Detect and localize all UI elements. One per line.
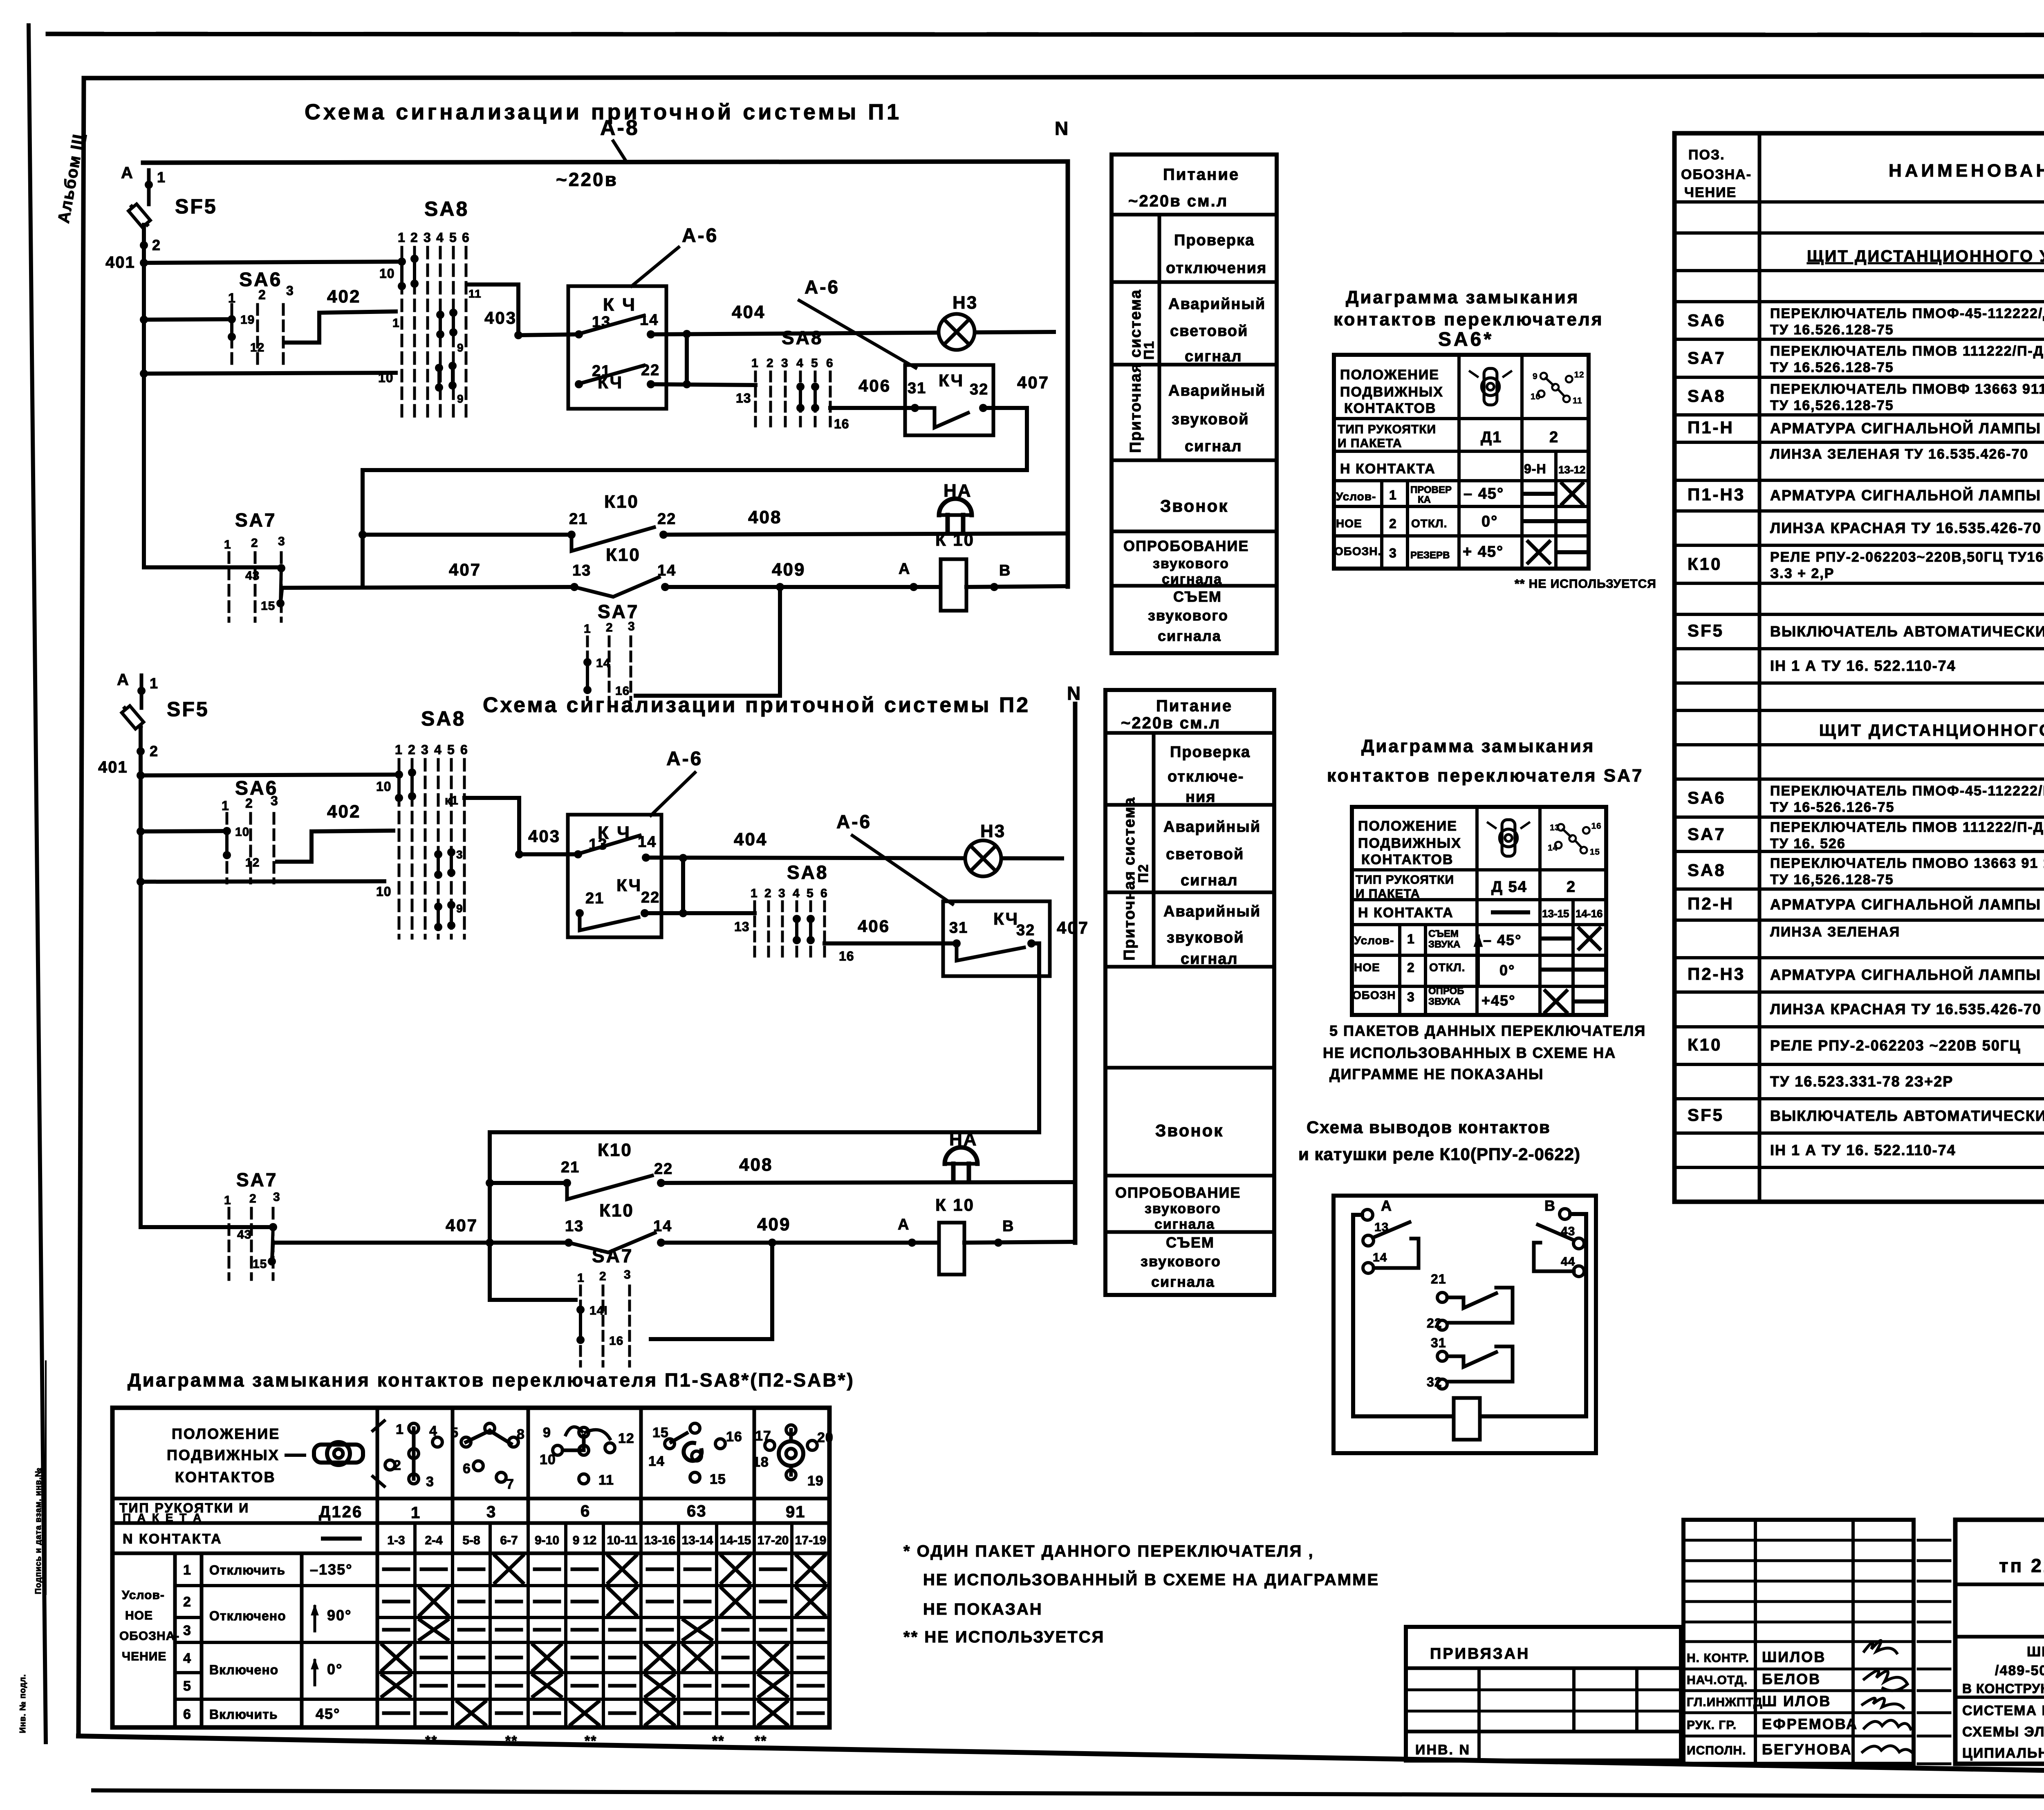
pictogram package 1 bbox=[385, 1422, 442, 1490]
page outer border top bbox=[48, 34, 2044, 35]
svg-text:НОЕ: НОЕ bbox=[1336, 517, 1362, 530]
svg-text:4: 4 bbox=[183, 1651, 191, 1666]
svg-text:9-10: 9-10 bbox=[535, 1534, 559, 1547]
svg-text:Н КОНТАКТА: Н КОНТАКТА bbox=[1358, 905, 1454, 921]
svg-text:ПРОВЕР: ПРОВЕР bbox=[1410, 484, 1452, 495]
svg-text:31: 31 bbox=[949, 919, 968, 936]
svg-text:** НЕ ИСПОЛЬЗУЕТСЯ: ** НЕ ИСПОЛЬЗУЕТСЯ bbox=[903, 1628, 1105, 1646]
svg-text:Аварийный: Аварийный bbox=[1168, 382, 1266, 399]
svg-text:3: 3 bbox=[1407, 990, 1415, 1004]
wire row3 bbox=[144, 373, 396, 374]
svg-text:13-15: 13-15 bbox=[1542, 907, 1569, 920]
svg-text:SA7: SA7 bbox=[598, 601, 639, 622]
svg-text:1: 1 bbox=[751, 356, 759, 370]
svg-text:~220в: ~220в bbox=[556, 169, 618, 190]
svg-text:2: 2 bbox=[408, 742, 416, 757]
svg-text:2: 2 bbox=[258, 287, 266, 302]
svg-text:13-14: 13-14 bbox=[682, 1534, 713, 1547]
svg-text:14: 14 bbox=[1548, 843, 1558, 853]
wire jog from SA8 to KЧ bbox=[468, 284, 518, 335]
svg-text:1: 1 bbox=[183, 1562, 191, 1578]
svg-text:КОНТАКТОВ: КОНТАКТОВ bbox=[1361, 852, 1453, 867]
svg-text:Проверка: Проверка bbox=[1170, 744, 1251, 761]
svg-text:SF5: SF5 bbox=[1688, 621, 1724, 640]
svg-text:**: ** bbox=[755, 1733, 767, 1749]
svg-text:90°: 90° bbox=[327, 1607, 352, 1624]
svg-text:ГЛ.ИНЖПТД: ГЛ.ИНЖПТД bbox=[1687, 1696, 1763, 1709]
svg-text:СИСТЕМА ПРИТОЧНАЯ П1(П2).: СИСТЕМА ПРИТОЧНАЯ П1(П2). bbox=[1962, 1703, 2044, 1718]
wire 22 out P2 bbox=[645, 911, 755, 915]
svg-text:9: 9 bbox=[1533, 372, 1537, 381]
svg-text:19: 19 bbox=[807, 1473, 824, 1489]
svg-text:3: 3 bbox=[456, 848, 463, 861]
section verticals in header rows bbox=[451, 1408, 455, 1523]
SA6 diagram table frame bbox=[1334, 355, 1589, 569]
svg-text:17: 17 bbox=[755, 1428, 771, 1444]
SA7 matrix cells bbox=[1542, 936, 1570, 941]
svg-text:6: 6 bbox=[183, 1707, 191, 1722]
svg-text:32: 32 bbox=[1016, 922, 1035, 939]
svg-text:ШКОЛА НА 13КЛАССОВ: ШКОЛА НА 13КЛАССОВ bbox=[2027, 1644, 2044, 1660]
svg-text:ПОЛОЖЕНИЕ: ПОЛОЖЕНИЕ bbox=[1358, 818, 1457, 834]
svg-text:НАИМЕНОВАНИЕ: НАИМЕНОВАНИЕ bbox=[1889, 161, 2044, 181]
wire 407 P2 from SA7 to K10 13 bbox=[273, 1241, 569, 1245]
wire 409 bbox=[665, 585, 941, 589]
svg-text:КОНТАКТОВ: КОНТАКТОВ bbox=[175, 1469, 276, 1485]
svg-text:1: 1 bbox=[411, 1504, 421, 1522]
wire 408 bbox=[663, 533, 1068, 535]
svg-text:ОТКЛ.: ОТКЛ. bbox=[1411, 517, 1447, 530]
svg-text:тп 222-1-467. 86: тп 222-1-467. 86 bbox=[1999, 1555, 2044, 1576]
svg-text:Отключить: Отключить bbox=[209, 1563, 285, 1577]
svg-text:отключения: отключения bbox=[1166, 260, 1267, 277]
svg-text:14-15: 14-15 bbox=[720, 1534, 751, 1547]
svg-text:2: 2 bbox=[183, 1594, 191, 1610]
title block middle gap column bbox=[1954, 1520, 1957, 1764]
svg-text:SA6: SA6 bbox=[1688, 311, 1726, 330]
wire row3 P2 bbox=[141, 881, 384, 882]
wire 402 (stepped) bbox=[286, 311, 396, 343]
svg-text:SF5: SF5 bbox=[175, 195, 217, 218]
svg-text:Услов-: Услов- bbox=[122, 1588, 165, 1602]
relay contact block КЧ P1 (13-14 / 21-22) bbox=[568, 286, 666, 409]
svg-text:ОБОЗНА-: ОБОЗНА- bbox=[1681, 167, 1752, 182]
contact A (13-14) bbox=[1362, 1210, 1373, 1220]
svg-text:5: 5 bbox=[450, 1425, 459, 1440]
svg-text:П1-Н3: П1-Н3 bbox=[1688, 485, 1745, 504]
wire 404 to lamp bbox=[651, 332, 1054, 334]
svg-text:1: 1 bbox=[395, 742, 403, 757]
svg-text:12: 12 bbox=[1574, 370, 1585, 380]
contact column verticals bbox=[413, 1523, 417, 1727]
svg-text:ОПРОБ: ОПРОБ bbox=[1428, 986, 1464, 997]
svg-text:3: 3 bbox=[424, 230, 431, 245]
signatures squiggles bbox=[1864, 1640, 1897, 1653]
svg-text:Услов-: Услов- bbox=[1336, 490, 1376, 503]
svg-text:А-6: А-6 bbox=[836, 811, 872, 832]
svg-text:ПОЛОЖЕНИЕ: ПОЛОЖЕНИЕ bbox=[1340, 367, 1439, 383]
svg-text:406: 406 bbox=[858, 916, 890, 936]
svg-text:3: 3 bbox=[421, 742, 429, 757]
svg-text:2: 2 bbox=[764, 887, 772, 900]
svg-text:ЦИПИАЛЬНЫЕ СИГНАЛИЗАЦИИ: ЦИПИАЛЬНЫЕ СИГНАЛИЗАЦИИ bbox=[1962, 1745, 2044, 1761]
signal table П2 rotated column divider bbox=[1152, 733, 1156, 967]
SA7 handle pictogram bbox=[1488, 820, 1529, 856]
svg-text:В: В bbox=[1544, 1197, 1556, 1214]
svg-text:10-11: 10-11 bbox=[607, 1534, 637, 1547]
relay coil K10 rect bbox=[1454, 1398, 1480, 1440]
svg-text:SA7: SA7 bbox=[235, 509, 276, 531]
svg-text:ОБОЗНА-: ОБОЗНА- bbox=[119, 1629, 179, 1643]
svg-text:А: А bbox=[1381, 1197, 1392, 1214]
svg-text:3: 3 bbox=[1389, 546, 1397, 560]
svg-text:А: А bbox=[899, 560, 910, 578]
svg-text:22: 22 bbox=[657, 511, 676, 528]
svg-text:**: ** bbox=[585, 1733, 597, 1749]
svg-text:SF5: SF5 bbox=[167, 698, 209, 721]
svg-text:ЕФРЕМОВА: ЕФРЕМОВА bbox=[1762, 1716, 1858, 1732]
svg-text:404: 404 bbox=[732, 302, 765, 322]
svg-text:СЪЕМ: СЪЕМ bbox=[1166, 1234, 1215, 1251]
svg-text:403: 403 bbox=[484, 308, 517, 327]
svg-text:А: А bbox=[898, 1216, 910, 1233]
svg-text:ния: ния bbox=[1186, 789, 1216, 806]
svg-text:21: 21 bbox=[585, 890, 604, 907]
doc number cell line bbox=[1955, 1583, 2044, 1586]
svg-text:10: 10 bbox=[540, 1452, 556, 1467]
svg-text:9 12: 9 12 bbox=[573, 1534, 596, 1547]
svg-text:15: 15 bbox=[652, 1425, 669, 1440]
svg-text:А-6: А-6 bbox=[666, 748, 703, 770]
svg-text:5-8: 5-8 bbox=[462, 1534, 480, 1547]
svg-text:1: 1 bbox=[584, 622, 591, 636]
svg-text:11: 11 bbox=[468, 287, 482, 300]
svg-text:SA8: SA8 bbox=[1688, 386, 1726, 405]
svg-text:Н3: Н3 bbox=[980, 821, 1006, 841]
svg-text:10: 10 bbox=[1531, 392, 1541, 401]
svg-text:43: 43 bbox=[245, 569, 260, 582]
svg-text:– 45°: – 45° bbox=[1483, 932, 1522, 948]
svg-text:к1: к1 bbox=[445, 794, 459, 807]
svg-text:Отключено: Отключено bbox=[209, 1608, 286, 1623]
branch wire from 409 P2 down to SA7 bbox=[651, 1243, 772, 1339]
svg-text:Ш ИЛОВ: Ш ИЛОВ bbox=[1762, 1693, 1831, 1709]
svg-text:РЕЗЕРВ: РЕЗЕРВ bbox=[1410, 550, 1450, 561]
svg-text:3: 3 bbox=[628, 620, 635, 633]
parts table row lines bbox=[1674, 200, 2044, 204]
svg-text:4: 4 bbox=[436, 230, 444, 245]
page inner frame top bbox=[84, 76, 2044, 78]
svg-text:РУК. ГР.: РУК. ГР. bbox=[1687, 1718, 1737, 1732]
svg-text:К10: К10 bbox=[1688, 554, 1722, 573]
svg-text:SA8: SA8 bbox=[1688, 860, 1726, 880]
pictogram package 91 bbox=[753, 1425, 834, 1489]
svg-text:2-4: 2-4 bbox=[425, 1534, 443, 1547]
svg-text:СХЕМЫ ЭЛЕКТРИЧЕСКИЕ ПРИН-: СХЕМЫ ЭЛЕКТРИЧЕСКИЕ ПРИН- bbox=[1962, 1724, 2044, 1740]
relay contact КЧ P1 (31-32) bbox=[905, 365, 993, 435]
svg-text:1: 1 bbox=[1389, 488, 1397, 502]
svg-text:В КОНСТРУКЦИЯХ СЕРИИ 1.020-1/8: В КОНСТРУКЦИЯХ СЕРИИ 1.020-1/83 bbox=[1962, 1681, 2044, 1696]
svg-text:N: N bbox=[1055, 118, 1069, 139]
svg-text:63: 63 bbox=[687, 1502, 707, 1520]
svg-text:ПОДВИЖНЫХ: ПОДВИЖНЫХ bbox=[167, 1447, 280, 1463]
svg-text:сигнал: сигнал bbox=[1185, 438, 1242, 455]
svg-text:1: 1 bbox=[577, 1271, 585, 1285]
svg-text:К Ч: К Ч bbox=[603, 295, 637, 315]
svg-text:звукового: звукового bbox=[1153, 556, 1229, 571]
svg-text:П1-Н: П1-Н bbox=[1688, 418, 1734, 437]
SA7 angle values with arrows bbox=[1477, 936, 1480, 985]
svg-text:контактов переключателя SA7: контактов переключателя SA7 bbox=[1327, 766, 1643, 786]
svg-text:Н. КОНТР.: Н. КОНТР. bbox=[1687, 1651, 1749, 1665]
svg-text:SA8: SA8 bbox=[424, 197, 469, 220]
svg-text:/489-504 УЧАЩИХСЯ /: /489-504 УЧАЩИХСЯ / bbox=[1995, 1663, 2044, 1678]
svg-text:409: 409 bbox=[757, 1214, 791, 1234]
svg-text:401: 401 bbox=[105, 253, 135, 271]
svg-text:АРМАТУРА СИГНАЛЬНОЙ ЛАМПЫ АС-2: АРМАТУРА СИГНАЛЬНОЙ ЛАМПЫ АС-220 bbox=[1770, 419, 2044, 437]
svg-text:3: 3 bbox=[271, 793, 278, 808]
svg-text:2: 2 bbox=[249, 1192, 257, 1205]
svg-text:ВЫКЛЮЧАТЕЛЬ АВТОМАТИЧЕСКИЙ А: ВЫКЛЮЧАТЕЛЬ АВТОМАТИЧЕСКИЙ А 63М bbox=[1770, 1107, 2044, 1124]
svg-text:2: 2 bbox=[1567, 878, 1576, 896]
junction vertical 14/22 bbox=[685, 334, 689, 384]
svg-text:К10: К10 bbox=[598, 1140, 632, 1160]
svg-text:ПОЛОЖЕНИЕ: ПОЛОЖЕНИЕ bbox=[172, 1425, 280, 1442]
svg-text:4: 4 bbox=[796, 356, 804, 370]
svg-text:БЕГУНОВА: БЕГУНОВА bbox=[1762, 1741, 1852, 1758]
svg-text:и катушки реле К10(РПУ-2-06: и катушки реле К10(РПУ-2-0622) bbox=[1298, 1145, 1580, 1164]
svg-text:10: 10 bbox=[376, 779, 392, 794]
svg-text:ЧЕНИЕ: ЧЕНИЕ bbox=[1684, 185, 1737, 200]
relay contact block КЧ P2 (13-14 / 21-22) bbox=[568, 815, 661, 937]
svg-text:16: 16 bbox=[609, 1334, 623, 1348]
svg-text:SA8: SA8 bbox=[421, 707, 466, 730]
svg-text:9: 9 bbox=[457, 392, 464, 405]
branch wire from 409 down to SA7 bbox=[636, 587, 780, 696]
wire 402 P2 (stepped) bbox=[277, 831, 393, 862]
svg-text:ТУ 16,526.128-75: ТУ 16,526.128-75 bbox=[1770, 398, 1894, 413]
svg-text:+45°: +45° bbox=[1481, 992, 1515, 1009]
pictogram package 3 bbox=[450, 1423, 525, 1492]
signature table frame bbox=[1683, 1520, 1914, 1764]
svg-text:2: 2 bbox=[393, 1458, 401, 1473]
svg-text:Аварийный: Аварийный bbox=[1168, 296, 1266, 313]
svg-text:Проверка: Проверка bbox=[1174, 232, 1255, 249]
svg-text:SA6*: SA6* bbox=[1438, 329, 1494, 350]
svg-text:ТУ 16. 526: ТУ 16. 526 bbox=[1770, 836, 1846, 851]
svg-text:1: 1 bbox=[224, 1194, 231, 1207]
svg-text:ИСПОЛН.: ИСПОЛН. bbox=[1687, 1744, 1746, 1757]
svg-text:~220в см.л: ~220в см.л bbox=[1121, 714, 1221, 732]
svg-text:21: 21 bbox=[561, 1159, 580, 1176]
svg-text:15: 15 bbox=[1590, 847, 1600, 857]
svg-text:** НЕ ИСПОЛЬЗУЕТСЯ: ** НЕ ИСПОЛЬЗУЕТСЯ bbox=[1515, 577, 1656, 591]
svg-text:45°: 45° bbox=[316, 1705, 340, 1722]
svg-text:SA8: SA8 bbox=[787, 862, 828, 883]
svg-text:15: 15 bbox=[253, 1257, 267, 1271]
svg-text:2: 2 bbox=[766, 356, 774, 370]
svg-text:НЕ ИСПОЛЬЗОВАННЫЙ В СХЕМЕ НА: НЕ ИСПОЛЬЗОВАННЫЙ В СХЕМЕ НА ДИАГРАММЕ bbox=[923, 1570, 1379, 1589]
svg-text:10: 10 bbox=[378, 370, 394, 385]
contact B (43-44) bbox=[1560, 1209, 1570, 1219]
svg-text:9: 9 bbox=[543, 1425, 551, 1440]
svg-text:И ПАКЕТА: И ПАКЕТА bbox=[1338, 437, 1402, 450]
svg-text:П2-Н3: П2-Н3 bbox=[1688, 964, 1745, 983]
svg-text:ТУ 16.523.331-78 2З+2Р: ТУ 16.523.331-78 2З+2Р bbox=[1770, 1073, 1953, 1090]
svg-text:SA7: SA7 bbox=[236, 1169, 278, 1190]
svg-text:6: 6 bbox=[463, 1461, 471, 1476]
svg-text:ЗВУКА: ЗВУКА bbox=[1428, 939, 1460, 950]
svg-text:19: 19 bbox=[240, 313, 255, 327]
svg-text:~220в см.л: ~220в см.л bbox=[1128, 192, 1228, 210]
svg-text:32: 32 bbox=[970, 381, 988, 398]
svg-text:9: 9 bbox=[456, 902, 463, 915]
signature table rows bbox=[1683, 1539, 1914, 1542]
svg-text:ЗВУКА: ЗВУКА bbox=[1428, 996, 1460, 1007]
svg-text:БЕЛОВ: БЕЛОВ bbox=[1762, 1671, 1821, 1687]
svg-text:СЪЕМ: СЪЕМ bbox=[1173, 588, 1222, 605]
svg-text:1: 1 bbox=[1407, 932, 1415, 946]
svg-text:21: 21 bbox=[569, 511, 588, 528]
svg-text:9-Н: 9-Н bbox=[1524, 461, 1546, 476]
svg-text:З.3 + 2,Р: З.3 + 2,Р bbox=[1770, 566, 1834, 581]
svg-text:3: 3 bbox=[624, 1268, 631, 1281]
svg-text:КЧ: КЧ bbox=[993, 909, 1019, 928]
relay contact K10 (21-22) P2 bbox=[486, 1179, 494, 1187]
svg-text:П1: П1 bbox=[1141, 340, 1157, 360]
SA6 contact circles pictogram bbox=[1531, 370, 1584, 405]
signal table П1 rotated column divider bbox=[1158, 215, 1161, 460]
svg-text:14: 14 bbox=[648, 1454, 665, 1469]
svg-text:408: 408 bbox=[748, 507, 782, 527]
svg-text:3: 3 bbox=[286, 283, 294, 298]
svg-text:402: 402 bbox=[327, 802, 361, 822]
svg-text:1: 1 bbox=[392, 316, 400, 330]
svg-text:13: 13 bbox=[736, 391, 751, 405]
title block main frame bbox=[1955, 1520, 2044, 1764]
wire 404 P2 to lamp bbox=[646, 858, 1062, 858]
svg-text:ПЕРЕКЛЮЧАТЕЛЬ ПМОФ-45-112222/Д: ПЕРЕКЛЮЧАТЕЛЬ ПМОФ-45-112222/Д-Д1 bbox=[1770, 306, 2044, 321]
svg-text:ВЫКЛЮЧАТЕЛЬ АВТОМАТИЧЕСКИЙ А 6: ВЫКЛЮЧАТЕЛЬ АВТОМАТИЧЕСКИЙ А 63-М bbox=[1770, 623, 2044, 640]
svg-text:НЕ ПОКАЗАН: НЕ ПОКАЗАН bbox=[923, 1600, 1043, 1618]
svg-text:АРМАТУРА СИГНАЛЬНОЙ ЛАМПЫ АС-2: АРМАТУРА СИГНАЛЬНОЙ ЛАМПЫ АС-220 bbox=[1770, 966, 2044, 983]
svg-text:РЕЛЕ РПУ-2-062203~220В,50ГЦ ТУ: РЕЛЕ РПУ-2-062203~220В,50ГЦ ТУ16-523.331… bbox=[1770, 549, 2044, 565]
svg-text:2: 2 bbox=[606, 621, 613, 634]
svg-text:5: 5 bbox=[807, 887, 814, 900]
svg-text:сигнала: сигнала bbox=[1162, 571, 1222, 587]
wire 409 P2 bbox=[661, 1241, 939, 1245]
wire: trunk from SF5 down bbox=[142, 225, 146, 567]
svg-text:Звонок: Звонок bbox=[1155, 1121, 1224, 1140]
svg-text:N: N bbox=[1067, 683, 1081, 704]
wire 403 bbox=[518, 334, 579, 335]
svg-text:сигнала: сигнала bbox=[1158, 627, 1221, 644]
wire 407 from SA7 to K10 13 bbox=[282, 587, 574, 588]
svg-text:13-12: 13-12 bbox=[1558, 464, 1586, 476]
svg-text:ТИП РУКОЯТКИ: ТИП РУКОЯТКИ bbox=[1356, 873, 1454, 887]
svg-text:12: 12 bbox=[250, 341, 264, 354]
svg-text:**: ** bbox=[505, 1733, 518, 1749]
svg-text:SA7: SA7 bbox=[1688, 348, 1726, 367]
svg-text:1-3: 1-3 bbox=[387, 1534, 405, 1547]
привязан table frame bbox=[1406, 1627, 1681, 1761]
svg-text:ДИГРАММЕ НЕ ПОКАЗАНЫ: ДИГРАММЕ НЕ ПОКАЗАНЫ bbox=[1329, 1066, 1544, 1082]
svg-text:П А К Е Т А: П А К Е Т А bbox=[123, 1511, 203, 1524]
svg-text:ТУ 16.526.128-75: ТУ 16.526.128-75 bbox=[1770, 360, 1894, 375]
svg-text:ЛИНЗА КРАСНАЯ ТУ 16.535.426-70: ЛИНЗА КРАСНАЯ ТУ 16.535.426-70 bbox=[1770, 1001, 2042, 1017]
svg-text:403: 403 bbox=[528, 827, 560, 846]
svg-text:16: 16 bbox=[726, 1429, 742, 1445]
svg-text:+ 45°: + 45° bbox=[1463, 543, 1504, 560]
svg-text:ЛИНЗА ЗЕЛЕНАЯ: ЛИНЗА ЗЕЛЕНАЯ bbox=[1770, 924, 1900, 940]
svg-text:2: 2 bbox=[152, 237, 161, 253]
svg-text:407: 407 bbox=[449, 560, 481, 579]
svg-text:**: ** bbox=[425, 1733, 437, 1749]
svg-text:2: 2 bbox=[245, 796, 253, 811]
svg-text:0°: 0° bbox=[1499, 962, 1515, 979]
svg-text:ЛИНЗА ЗЕЛЕНАЯ ТУ 16.535.426-: ЛИНЗА ЗЕЛЕНАЯ ТУ 16.535.426-70 bbox=[1770, 446, 2028, 462]
wire 401 to SA8 bbox=[141, 775, 399, 775]
svg-text:2: 2 bbox=[410, 230, 418, 245]
svg-text:К 10: К 10 bbox=[935, 530, 975, 549]
wire 406 bbox=[830, 406, 915, 410]
svg-text:22: 22 bbox=[654, 1160, 673, 1178]
svg-text:13-16: 13-16 bbox=[644, 1534, 676, 1547]
svg-text:–135°: –135° bbox=[310, 1561, 352, 1578]
svg-text:16: 16 bbox=[839, 949, 854, 963]
svg-text:НОЕ: НОЕ bbox=[1354, 961, 1380, 974]
svg-text:12: 12 bbox=[245, 856, 260, 869]
svg-text:10: 10 bbox=[235, 825, 249, 839]
svg-text:18: 18 bbox=[753, 1454, 769, 1470]
svg-text:ПОДВИЖНЫХ: ПОДВИЖНЫХ bbox=[1358, 836, 1461, 851]
svg-text:13: 13 bbox=[734, 919, 750, 934]
svg-text:22: 22 bbox=[641, 889, 660, 906]
svg-text:3: 3 bbox=[278, 535, 285, 548]
svg-text:СЪЕМ: СЪЕМ bbox=[1428, 928, 1459, 939]
svg-text:12: 12 bbox=[618, 1431, 634, 1446]
svg-text:2: 2 bbox=[1407, 960, 1415, 975]
svg-text:13: 13 bbox=[565, 1218, 584, 1235]
svg-text:И ПАКЕТА: И ПАКЕТА bbox=[1356, 887, 1420, 901]
svg-text:звукового: звукового bbox=[1148, 607, 1228, 624]
svg-text:Инв. № подл.: Инв. № подл. bbox=[18, 1674, 27, 1733]
svg-text:16: 16 bbox=[1591, 822, 1602, 831]
svg-text:ОБОЗН: ОБОЗН bbox=[1352, 989, 1396, 1001]
svg-text:В: В bbox=[1002, 1218, 1014, 1235]
svg-text:15: 15 bbox=[710, 1472, 726, 1487]
svg-text:Н КОНТАКТА: Н КОНТАКТА bbox=[1340, 461, 1436, 477]
svg-text:П2-Н: П2-Н bbox=[1688, 894, 1734, 913]
svg-text:сигнал: сигнал bbox=[1185, 348, 1242, 365]
svg-text:Диаграмма замыкания: Диаграмма замыкания bbox=[1361, 736, 1595, 756]
svg-text:ЧЕНИЕ: ЧЕНИЕ bbox=[122, 1650, 166, 1663]
relay contact K10 (21-22) P1 bbox=[359, 531, 367, 539]
svg-text:Д126: Д126 bbox=[319, 1503, 363, 1521]
wire 408 P2 bbox=[661, 1182, 1075, 1183]
svg-text:ОПРОБОВАНИЕ: ОПРОБОВАНИЕ bbox=[1115, 1184, 1241, 1201]
K10 pinout outer box bbox=[1334, 1196, 1596, 1453]
svg-text:**: ** bbox=[712, 1733, 724, 1749]
svg-text:401: 401 bbox=[98, 758, 128, 776]
wire 403 P2 bbox=[519, 852, 578, 856]
svg-text:404: 404 bbox=[734, 829, 767, 849]
svg-text:Звонок: Звонок bbox=[1160, 496, 1228, 515]
svg-text:ПЕРЕКЛЮЧАТЕЛЬ ПМОВ 111222/П-Д: ПЕРЕКЛЮЧАТЕЛЬ ПМОВ 111222/П-Д 54 bbox=[1770, 820, 2044, 835]
svg-text:5: 5 bbox=[811, 356, 818, 370]
svg-text:сигнал: сигнал bbox=[1181, 872, 1238, 889]
svg-text:4: 4 bbox=[429, 1423, 437, 1439]
